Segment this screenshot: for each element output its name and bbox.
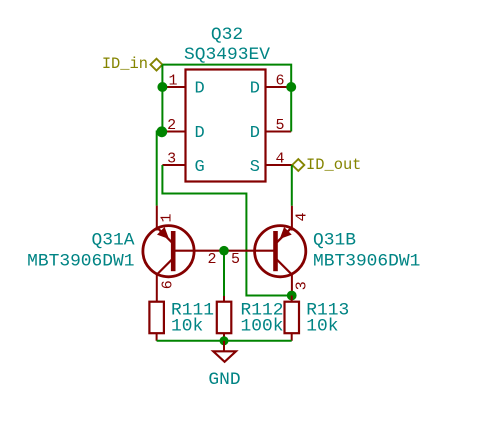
svg-text:2: 2 (207, 251, 216, 268)
Q31B emitter pin stub (4) (291, 206, 293, 231)
pin 4 line (266, 164, 293, 166)
junction at Q31B collector / R113 (287, 291, 297, 301)
Q31A collector diagonal (pin 6, bottom) (157, 258, 174, 275)
op-amp U1 : IC Q32 body rectangle (186, 70, 266, 182)
ground stem (223, 341, 225, 352)
junction at pin 2 (156, 126, 167, 137)
svg-text:SQ3493EV: SQ3493EV (184, 45, 270, 65)
svg-text:Q31B: Q31B (313, 230, 356, 250)
svg-text:MBT3906DW1: MBT3906DW1 (313, 252, 420, 272)
svg-text:G: G (195, 158, 205, 177)
wire ID_out down to Q31B emitter pin (291, 165, 293, 206)
svg-text:S: S (250, 158, 260, 177)
wire pin2 junction down to Q31A emitter pin (157, 132, 163, 206)
R112 top pin stub (223, 296, 225, 302)
pin 6 line (266, 86, 292, 88)
Q31A emitter pin stub (1) (156, 206, 158, 231)
svg-text:GND: GND (208, 370, 240, 390)
Q31A collector pin stub (6) (156, 273, 158, 302)
wire ID_in to pin6/pin5 top run (162, 65, 291, 132)
svg-text:D: D (195, 124, 205, 143)
R113 top pin stub (291, 296, 293, 302)
pin 2 line (162, 131, 185, 133)
junction at pin 6 (286, 82, 296, 92)
svg-text:3: 3 (293, 281, 310, 290)
svg-text:4: 4 (275, 151, 284, 168)
svg-text:1: 1 (159, 213, 176, 222)
Q31A emitter diagonal (pin 1, top) (157, 227, 173, 243)
hierarchical label ID_out (292, 156, 361, 174)
ground symbol (208, 341, 240, 390)
Q31B emitter arrow (281, 228, 291, 238)
transistor Q3 : Q31B (224, 206, 420, 296)
resistor R113 (285, 296, 350, 341)
Q31B base pin line (5) (224, 250, 275, 252)
resistor R111 (149, 300, 214, 340)
svg-text:2: 2 (167, 117, 176, 134)
svg-text:6: 6 (159, 280, 176, 289)
Q31A emitter arrow (158, 228, 168, 238)
svg-text:5: 5 (275, 117, 284, 134)
Q31B base bar (273, 231, 278, 271)
transistor Q2 : Q31A (27, 206, 224, 302)
svg-text:6: 6 (275, 73, 284, 90)
svg-text:3: 3 (167, 151, 176, 168)
Q31B collector diagonal (pin 3, bottom) (275, 258, 292, 275)
wire ID_in down to pin1 and pin2 (161, 65, 163, 132)
svg-text:D: D (250, 124, 260, 143)
svg-text:100k: 100k (241, 317, 284, 337)
svg-text:ID_out: ID_out (306, 156, 361, 174)
junction between transistor bases (219, 246, 229, 256)
svg-text:D: D (250, 80, 260, 99)
junction at pin 1 (157, 82, 167, 92)
svg-text:Q32: Q32 (211, 25, 243, 45)
svg-text:D: D (195, 80, 205, 99)
svg-text:10k: 10k (306, 317, 338, 337)
wire base junction down to R112 (223, 251, 225, 298)
junction at ground rail (220, 336, 229, 345)
R113 bottom pin stub (291, 333, 293, 341)
Q31A circle (143, 226, 194, 277)
svg-text:Q31A: Q31A (92, 230, 135, 250)
svg-text:5: 5 (231, 251, 240, 268)
hierarchical label ID_in (102, 55, 163, 73)
svg-text:4: 4 (293, 212, 310, 221)
resistor R112 (217, 296, 284, 341)
Q31A base pin line (2) (174, 250, 224, 252)
svg-text:10k: 10k (171, 317, 203, 337)
Q31A base bar (171, 231, 176, 271)
R111 bottom pin stub (156, 333, 158, 341)
Q31B emitter diagonal (pin 4, top) (276, 227, 292, 243)
pin 5 line (266, 131, 292, 133)
pin 1 line (162, 86, 185, 88)
Q31B circle (255, 226, 306, 277)
wire pin3 G to Q31B collector region (162, 165, 291, 296)
svg-text:MBT3906DW1: MBT3906DW1 (27, 252, 134, 272)
svg-text:1: 1 (168, 73, 177, 90)
svg-text:ID_in: ID_in (102, 55, 148, 73)
Q31B collector pin stub (3) (291, 273, 293, 296)
wire bottom ground rail (157, 340, 292, 342)
R112 bottom pin stub (223, 333, 225, 341)
pin 3 line (162, 164, 185, 166)
ground triangle (213, 351, 236, 362)
